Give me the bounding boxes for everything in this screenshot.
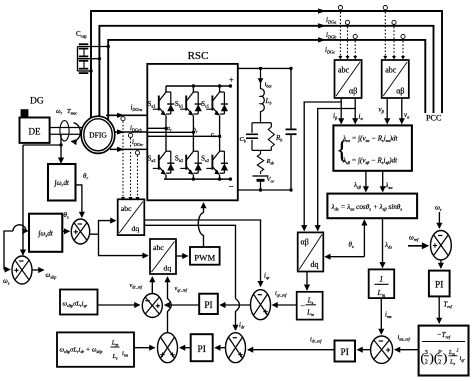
svg-text:PI: PI (341, 348, 349, 358)
svg-text:abc: abc (121, 204, 132, 213)
svg-text:αβ: αβ (396, 87, 404, 96)
svg-text:1: 1 (379, 275, 383, 284)
svg-text:abc: abc (153, 243, 164, 252)
svg-text:PI: PI (198, 345, 206, 355)
svg-text:): ) (443, 350, 447, 365)
svg-text:−: − (301, 302, 306, 311)
svg-text:abc: abc (385, 66, 397, 75)
svg-text:αβ: αβ (349, 87, 357, 96)
svg-text:3: 3 (425, 349, 428, 356)
svg-text:dq: dq (164, 264, 172, 273)
svg-text:DFIG: DFIG (89, 130, 107, 139)
svg-text:DG: DG (30, 97, 44, 107)
svg-text:abc: abc (338, 66, 350, 75)
svg-text:PI: PI (435, 281, 443, 291)
svg-text:λsα = ∫(vsα − Rsisα)dt: λsα = ∫(vsα − Rsisα)dt (342, 135, 398, 144)
svg-text:2: 2 (457, 348, 459, 353)
svg-text:RSC: RSC (188, 50, 209, 62)
svg-text:DE: DE (29, 127, 41, 137)
svg-text:+: + (229, 76, 234, 85)
svg-text:dq: dq (311, 260, 319, 269)
svg-text:)(: )( (430, 350, 439, 365)
svg-text:αβ: αβ (301, 238, 309, 247)
svg-text:λds = λsα cosθs + λsβ sinθs: λds = λsα cosθs + λsβ sinθs (331, 203, 403, 212)
svg-text:PWM: PWM (194, 253, 215, 263)
svg-text:−: − (229, 182, 234, 192)
svg-text:dq: dq (132, 224, 140, 233)
svg-text:P: P (437, 349, 442, 356)
svg-text:PCC: PCC (426, 114, 442, 123)
svg-text:PI: PI (204, 301, 212, 311)
svg-text:2: 2 (438, 359, 441, 366)
svg-text:λsβ = ∫(vsβ − Rsisβ)dt: λsβ = ∫(vsβ − Rsisβ)dt (342, 157, 398, 166)
svg-text:2: 2 (425, 359, 428, 366)
